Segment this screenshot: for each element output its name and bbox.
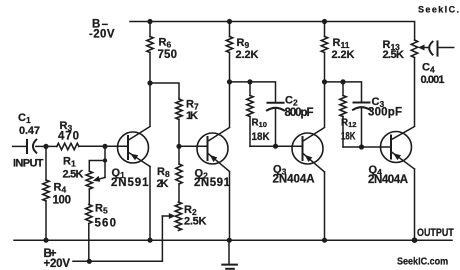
transistor Q1 2N591	[105, 127, 150, 189]
node Q3 base junction	[273, 144, 278, 149]
node R11/C3 junction	[322, 79, 327, 84]
wire Q1 emitter to rail	[149, 167, 151, 241]
svg-text:OUTPUT: OUTPUT	[417, 227, 454, 239]
svg-text:300pF: 300pF	[368, 106, 402, 118]
transistor Q3 2N404A	[273, 128, 325, 186]
resistor R10 18K	[247, 79, 270, 146]
capacitor C2 800pF	[230, 82, 314, 146]
svg-text:INPUT: INPUT	[13, 157, 44, 169]
resistor R12 18K	[340, 79, 357, 147]
resistor R6 750	[147, 22, 177, 127]
node R9/C2 junction	[227, 79, 232, 84]
svg-text:2K: 2K	[157, 178, 169, 190]
svg-text:18K: 18K	[252, 132, 271, 144]
svg-text:2N591: 2N591	[111, 177, 149, 189]
capacitor C3 300pF	[325, 82, 403, 147]
svg-text:2N404A: 2N404A	[368, 174, 408, 186]
node Q4 base junction	[359, 144, 364, 149]
node top rail R11 tap	[322, 19, 327, 24]
node rail R4	[43, 238, 48, 243]
wire bottom common rail	[14, 239, 452, 241]
svg-text:750: 750	[158, 49, 178, 61]
resistor R1 2.5K potentiometer	[63, 146, 108, 189]
resistor R13 2.5K potentiometer	[383, 39, 430, 126]
svg-text:18K: 18K	[341, 130, 356, 143]
node B+ stub junction	[87, 259, 92, 264]
svg-text:2.2K: 2.2K	[236, 49, 259, 61]
resistor R4 100	[43, 146, 71, 240]
svg-text:2.5K: 2.5K	[184, 216, 207, 228]
node B+ supply label	[44, 248, 71, 270]
node OUTPUT	[412, 227, 455, 243]
resistor R7 1K	[150, 83, 199, 146]
wire B+ feed stub	[73, 216, 162, 261]
svg-text:560: 560	[95, 218, 117, 230]
svg-text:2N404A: 2N404A	[273, 173, 315, 185]
node rail Q3 emitter	[322, 238, 327, 243]
resistor R9 2.2K	[226, 22, 258, 127]
svg-text:2N591: 2N591	[194, 177, 231, 189]
svg-text:470: 470	[58, 130, 79, 142]
svg-text:0.47: 0.47	[19, 125, 40, 137]
node R6/R7 junction	[147, 80, 152, 85]
resistor R8 2K	[157, 146, 183, 202]
transistor Q4 2N404A	[368, 127, 415, 186]
svg-text:SeekIC.com: SeekIC.com	[397, 256, 448, 268]
node top rail R6 tap	[147, 19, 152, 24]
wire Q3 emitter to rail	[324, 172, 326, 240]
capacitor C1 0.47	[18, 112, 46, 153]
node B- supply label	[89, 19, 115, 41]
resistor R3 470	[46, 120, 118, 150]
transistor Q2 2N591	[179, 128, 231, 189]
node Q2 base junction	[176, 144, 181, 149]
wire Q3 base	[250, 145, 302, 147]
resistor R2 2.5K potentiometer	[162, 202, 206, 231]
svg-text:2.2K: 2.2K	[332, 49, 355, 61]
svg-text:2.5K: 2.5K	[383, 49, 405, 61]
svg-text:1K: 1K	[186, 110, 198, 122]
node top rail R9 tap	[227, 19, 232, 24]
watermark SeekIC.com bottom	[397, 256, 448, 268]
watermark SeekIC top right	[418, 5, 459, 15]
resistor R11 2.2K	[321, 22, 354, 127]
node input junction	[43, 144, 48, 149]
node Q1 base junction	[102, 144, 107, 149]
wire top B- rail	[130, 22, 415, 41]
svg-text:800pF: 800pF	[285, 107, 314, 119]
svg-text:-20V: -20V	[89, 29, 115, 41]
node INPUT terminal	[13, 146, 44, 169]
svg-text:100: 100	[53, 195, 72, 207]
node rail Q2 emitter/ground	[227, 238, 232, 243]
node rail Q1 emitter	[147, 238, 152, 243]
ground	[222, 240, 237, 269]
resistor R5 560	[86, 189, 116, 261]
svg-text:2.5K: 2.5K	[63, 168, 84, 180]
wire Q2 emitter to rail	[229, 172, 231, 241]
svg-text:0.001: 0.001	[421, 74, 445, 86]
capacitor C4 0.001	[421, 41, 454, 86]
wire Q4 base	[343, 146, 391, 148]
wire Q4 emitter to rail / output node	[414, 169, 416, 240]
svg-text:+20V: +20V	[44, 258, 71, 270]
